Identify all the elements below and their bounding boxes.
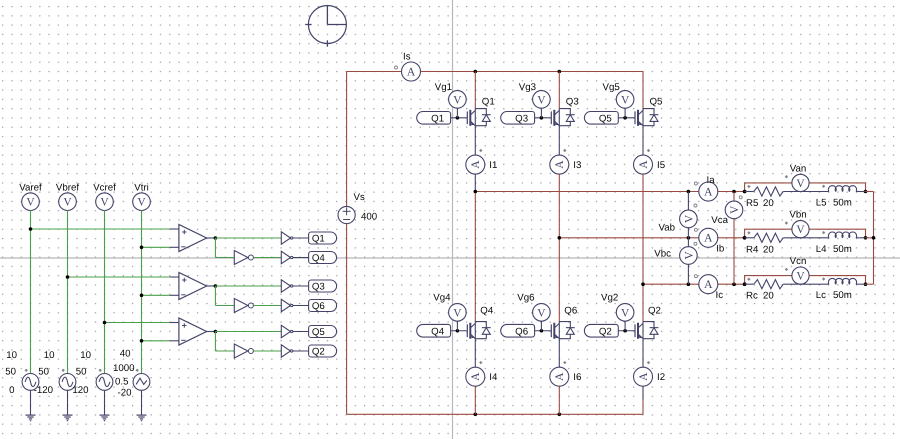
svg-text:1000: 1000 — [113, 363, 135, 374]
wire — [783, 191, 829, 193]
voltmeter Vg6 — [533, 304, 551, 331]
wire — [474, 339, 476, 368]
wire — [104, 390, 106, 414]
svg-text:A: A — [704, 186, 713, 198]
wire — [141, 210, 143, 373]
ammeter Ic — [699, 275, 718, 294]
svg-text:A: A — [638, 160, 650, 169]
wire — [558, 126, 560, 155]
svg-text:Vg6: Vg6 — [517, 293, 534, 304]
voltmeter Vcref — [96, 193, 114, 211]
label Vg5 — [603, 82, 620, 93]
svg-text:Q6: Q6 — [564, 306, 577, 317]
label Vg4 — [433, 293, 451, 304]
marker L5 — [822, 185, 825, 188]
label Q2 — [648, 306, 661, 317]
svg-text:10: 10 — [44, 350, 55, 361]
wire — [293, 305, 309, 307]
buffer gate Q5 — [281, 325, 293, 337]
svg-text:A: A — [470, 372, 482, 381]
svg-text:-120: -120 — [34, 385, 54, 396]
svg-text:V: V — [63, 197, 72, 209]
svg-text:A: A — [704, 233, 713, 245]
marker Vcn — [785, 268, 788, 271]
label R5 — [746, 198, 774, 209]
label Q3 — [566, 97, 579, 108]
marker Vca — [739, 196, 742, 199]
clock icon — [305, 6, 346, 47]
svg-text:Vbn: Vbn — [789, 210, 806, 221]
voltmeter Vg5 — [616, 91, 634, 118]
svg-text:A: A — [638, 372, 650, 381]
label I4 — [489, 372, 498, 383]
link tag Q2 — [309, 345, 337, 358]
value labels Vbref — [34, 350, 55, 396]
wire — [642, 284, 644, 321]
svg-text:50m: 50m — [833, 290, 852, 301]
label Ib — [716, 243, 724, 254]
label Vca — [711, 215, 728, 226]
label Rc — [746, 291, 774, 302]
svg-text:V: V — [621, 307, 630, 319]
svg-text:Van: Van — [790, 163, 807, 174]
svg-text:Vg1: Vg1 — [435, 82, 452, 93]
wire — [474, 174, 476, 191]
marker I6 — [563, 361, 566, 364]
label Ic — [716, 290, 724, 301]
svg-text:-20: -20 — [117, 388, 132, 399]
wire — [207, 284, 218, 288]
svg-text:L5: L5 — [816, 198, 827, 209]
svg-text:I6: I6 — [573, 372, 581, 383]
node gate — [456, 116, 460, 120]
svg-text:120: 120 — [72, 385, 89, 396]
axis vertical line — [452, 0, 454, 439]
voltmeter Vtri — [133, 193, 151, 211]
svg-text:I3: I3 — [573, 160, 581, 171]
marker Ic — [694, 275, 697, 278]
svg-text:20: 20 — [763, 198, 774, 209]
svg-text:V: V — [537, 307, 546, 319]
svg-text:V: V — [453, 307, 462, 319]
voltmeter Vbc — [680, 247, 698, 265]
svg-text:A: A — [554, 372, 566, 381]
svg-text:R4: R4 — [746, 244, 759, 255]
wire — [215, 332, 234, 352]
svg-text:Q5: Q5 — [650, 97, 663, 108]
label Vbn — [789, 210, 806, 221]
svg-text:A: A — [470, 160, 482, 169]
wire node Varef to comparator U1 + — [29, 227, 179, 231]
label I1 — [489, 160, 497, 171]
svg-text:20: 20 — [763, 291, 774, 302]
svg-text:Ib: Ib — [716, 243, 724, 254]
voltmeter Vab — [680, 210, 698, 228]
wire node Vtri to comparator U3 - — [140, 339, 179, 343]
ground — [100, 415, 110, 421]
resistor R4 — [754, 233, 783, 242]
inverter NOT gate for Q2 — [234, 344, 253, 358]
svg-text:I2: I2 — [657, 372, 665, 383]
op-amp comparator U3 — [179, 318, 207, 345]
wire Vab stub — [687, 192, 689, 238]
gate link tag Q5 — [584, 112, 618, 125]
svg-text:50: 50 — [38, 367, 49, 378]
svg-text:Ic: Ic — [716, 290, 724, 301]
node gate — [540, 116, 544, 120]
svg-text:Varef: Varef — [19, 183, 42, 194]
marker I3 — [563, 149, 566, 152]
wire — [745, 237, 754, 239]
marker Vbc — [694, 242, 697, 245]
ammeter Ib — [699, 228, 718, 247]
svg-text:V: V — [796, 178, 805, 190]
buffer gate Q2 — [281, 345, 293, 357]
marker R5 — [747, 185, 750, 188]
wire — [558, 174, 560, 238]
svg-text:Q2: Q2 — [312, 347, 325, 358]
source Vcref (sine) — [96, 369, 113, 391]
node — [743, 190, 868, 194]
wire — [783, 283, 829, 285]
wire — [67, 390, 69, 414]
wire — [856, 191, 865, 193]
svg-text:Vbc: Vbc — [654, 249, 671, 260]
buffer gate Q3 — [281, 280, 293, 292]
ground — [63, 415, 73, 421]
ammeter I2 — [634, 367, 653, 386]
wire phase b rail — [558, 236, 747, 240]
marker Vbn — [785, 221, 788, 224]
marker I4 — [479, 361, 482, 364]
wire — [642, 174, 644, 284]
label L4 — [816, 244, 852, 255]
wire neutral stub — [866, 237, 874, 239]
gate link tag Q6 — [501, 324, 535, 337]
label Ia — [707, 175, 716, 186]
svg-text:Vs: Vs — [354, 192, 365, 203]
voltmeter Vg1 — [449, 91, 467, 118]
svg-text:20: 20 — [763, 244, 774, 255]
value 400 — [361, 212, 378, 223]
label I5 — [657, 160, 665, 171]
value labels Vtri — [113, 349, 135, 399]
marker Ia — [694, 182, 697, 185]
wire — [558, 339, 560, 368]
svg-text:V: V — [453, 94, 462, 106]
svg-text:V: V — [537, 94, 546, 106]
ammeter Is — [402, 62, 421, 81]
wire branch top Vbn — [745, 229, 792, 238]
wire — [215, 237, 281, 239]
wire top rail left — [347, 71, 402, 73]
wire — [207, 330, 218, 334]
wire — [558, 386, 560, 414]
svg-text:Ia: Ia — [707, 175, 716, 186]
label Vbref — [56, 183, 79, 194]
svg-text:V: V — [796, 224, 805, 236]
svg-text:V: V — [100, 197, 109, 209]
wire Vbc stub — [687, 238, 689, 284]
transistor IGBT Q5 — [618, 109, 658, 126]
ammeter I3 — [550, 155, 569, 174]
ammeter Ia — [699, 182, 718, 201]
node gate — [456, 329, 460, 333]
label Vab — [658, 223, 675, 234]
label I2 — [657, 372, 665, 383]
marker Vab — [694, 204, 697, 207]
wire branch top right — [809, 276, 865, 285]
label Vcref — [93, 183, 116, 194]
wire — [474, 192, 476, 322]
voltmeter Vcn — [792, 267, 809, 284]
svg-text:Q4: Q4 — [312, 253, 326, 264]
wire node Vtri to comparator U1 - — [140, 246, 179, 250]
wire — [293, 285, 309, 287]
wire — [207, 236, 218, 240]
svg-text:Vg5: Vg5 — [603, 82, 620, 93]
wire — [253, 350, 281, 352]
transistor IGBT Q6 — [535, 322, 575, 339]
svg-text:Vcn: Vcn — [790, 256, 807, 267]
svg-text:Lc: Lc — [816, 290, 826, 301]
wire — [783, 237, 829, 239]
wire node Vtri to comparator U2 - — [140, 294, 179, 298]
label Q1 — [482, 97, 495, 108]
link tag Q6 — [309, 300, 337, 313]
svg-text:V: V — [621, 94, 630, 106]
inverter NOT gate for Q6 — [234, 299, 253, 313]
label Vg6 — [517, 293, 534, 304]
wire — [215, 286, 234, 306]
marker Ib — [694, 228, 697, 231]
voltmeter Vbref — [59, 193, 77, 211]
label Vg3 — [519, 82, 536, 93]
buffer gate Q4 — [281, 251, 293, 263]
svg-text:Q1: Q1 — [431, 113, 444, 124]
svg-text:Vg2: Vg2 — [601, 293, 618, 304]
wire — [474, 72, 476, 109]
op-amp comparator U1 — [179, 225, 207, 252]
svg-text:Vg3: Vg3 — [519, 82, 536, 93]
transistor IGBT Q1 — [451, 109, 491, 126]
source Vbref (sine) — [59, 369, 76, 391]
node gate — [623, 329, 627, 333]
svg-text:Q1: Q1 — [482, 97, 495, 108]
wire — [293, 331, 309, 333]
svg-text:10: 10 — [80, 350, 91, 361]
svg-text:A: A — [704, 279, 713, 291]
wire branch top right — [809, 229, 865, 238]
svg-text:Vg4: Vg4 — [433, 293, 451, 304]
svg-text:Q2: Q2 — [599, 326, 612, 337]
wire — [293, 350, 309, 352]
wire — [141, 390, 143, 414]
resistor R5 — [754, 187, 783, 196]
wire neutral stub — [866, 283, 874, 285]
ground — [26, 415, 36, 421]
svg-text:Vbref: Vbref — [56, 183, 79, 194]
label Q4 — [480, 306, 494, 317]
svg-text:Q4: Q4 — [431, 326, 445, 337]
gate link tag Q3 — [501, 112, 535, 125]
wire — [215, 285, 281, 287]
marker Van — [785, 175, 788, 178]
wire — [642, 339, 644, 368]
wire — [293, 237, 309, 239]
svg-text:A: A — [407, 66, 416, 78]
wire — [215, 331, 281, 333]
wire phase a rail — [474, 190, 747, 194]
label Is — [403, 52, 411, 63]
wire branch top Vcn — [745, 276, 792, 285]
svg-text:50: 50 — [5, 367, 16, 378]
voltmeter Van — [792, 174, 809, 191]
svg-text:V: V — [796, 271, 805, 283]
op-amp comparator U2 — [179, 273, 207, 300]
wire branch top Van — [745, 183, 792, 192]
svg-text:I4: I4 — [489, 372, 498, 383]
svg-text:Q2: Q2 — [648, 306, 661, 317]
buffer gate Q6 — [281, 299, 293, 311]
label I6 — [573, 372, 581, 383]
svg-text:V: V — [729, 205, 741, 214]
value labels Varef — [5, 350, 17, 396]
link tag Q4 — [309, 252, 337, 265]
wire phase c rail — [641, 282, 746, 286]
svg-text:Q3: Q3 — [566, 97, 579, 108]
voltmeter Vca — [725, 201, 743, 219]
resistor Rc — [754, 280, 783, 289]
gate link tag Q4 — [417, 324, 451, 337]
svg-text:0: 0 — [9, 385, 15, 396]
svg-text:V: V — [26, 197, 35, 209]
svg-text:Q4: Q4 — [480, 306, 494, 317]
node — [743, 236, 868, 240]
label Vtri — [134, 183, 149, 194]
label Varef — [19, 183, 42, 194]
node gate — [623, 116, 627, 120]
wire Vca stub — [733, 192, 735, 285]
label L5 — [816, 198, 852, 209]
label I3 — [573, 160, 581, 171]
wire — [253, 305, 281, 307]
ammeter I6 — [550, 367, 569, 386]
label Vbc — [654, 249, 671, 260]
wire — [30, 210, 32, 373]
svg-text:0.5: 0.5 — [115, 377, 128, 388]
wire — [215, 238, 234, 258]
wire Vs to bottom rail — [346, 224, 348, 415]
inductor L5 — [828, 186, 856, 192]
gate link tag Q1 — [417, 112, 451, 125]
svg-text:I1: I1 — [489, 160, 497, 171]
marker L4 — [822, 231, 825, 234]
inductor L4 — [828, 232, 856, 238]
link tag Q5 — [309, 326, 337, 339]
svg-text:V: V — [683, 214, 695, 223]
wire branch top right — [809, 183, 865, 192]
gate link tag Q2 — [584, 324, 618, 337]
svg-text:Q6: Q6 — [515, 326, 528, 337]
wire — [642, 126, 644, 155]
wire — [67, 210, 69, 373]
transistor IGBT Q3 — [535, 109, 575, 126]
inductor Lc — [828, 278, 856, 284]
svg-text:Q5: Q5 — [312, 327, 325, 338]
voltmeter Varef — [22, 193, 40, 211]
wire neutral stub — [866, 191, 874, 193]
link tag Q3 — [309, 280, 337, 293]
svg-text:10: 10 — [6, 350, 17, 361]
dc source Vs — [338, 206, 355, 223]
svg-text:R5: R5 — [746, 198, 758, 209]
svg-text:Vtri: Vtri — [134, 183, 149, 194]
transistor IGBT Q4 — [451, 322, 491, 339]
label Vg1 — [435, 82, 452, 93]
ammeter I5 — [634, 155, 653, 174]
wire — [642, 386, 644, 414]
voltmeter Vg4 — [449, 304, 467, 331]
source Vtri (triangle) — [133, 369, 150, 391]
svg-text:Q6: Q6 — [312, 301, 325, 312]
marker Rc — [747, 278, 750, 281]
source Varef (sine) — [22, 369, 39, 391]
wire — [745, 191, 754, 193]
buffer gate Q1 — [281, 232, 293, 244]
svg-text:Vab: Vab — [658, 223, 675, 234]
voltmeter Vg2 — [616, 304, 634, 331]
svg-text:Q5: Q5 — [599, 113, 612, 124]
marker I2 — [647, 361, 650, 364]
axis horizontal line — [0, 257, 900, 259]
svg-text:Q1: Q1 — [312, 234, 325, 245]
svg-text:50m: 50m — [833, 198, 852, 209]
voltmeter Vg3 — [533, 91, 551, 118]
svg-text:Q3: Q3 — [312, 282, 325, 293]
node gate — [540, 329, 544, 333]
ammeter I4 — [466, 367, 485, 386]
svg-text:50m: 50m — [833, 244, 852, 255]
inverter NOT gate for Q4 — [234, 251, 253, 265]
wire node Vcref to comparator U3 + — [103, 321, 179, 325]
wire — [642, 72, 644, 109]
wire — [745, 283, 754, 285]
ground — [137, 415, 147, 421]
ammeter I1 — [466, 155, 485, 174]
voltmeter Vbn — [792, 221, 809, 238]
wire top rail — [421, 70, 644, 74]
marker Lc — [822, 277, 825, 280]
label R4 — [746, 244, 774, 255]
node — [743, 282, 868, 286]
wire — [856, 237, 865, 239]
label Vg2 — [601, 293, 618, 304]
svg-text:Rc: Rc — [746, 291, 758, 302]
wire — [253, 257, 281, 259]
transistor IGBT Q2 — [618, 322, 658, 339]
wire Vs to top rail — [346, 72, 348, 207]
svg-text:I5: I5 — [657, 160, 665, 171]
label Vs — [354, 192, 365, 203]
wire — [104, 210, 106, 373]
svg-text:Vca: Vca — [711, 215, 728, 226]
wire node Vbref to comparator U2 + — [66, 275, 179, 279]
svg-text:50: 50 — [76, 367, 87, 378]
wire — [293, 257, 309, 259]
marker Is — [395, 66, 398, 69]
wire — [558, 238, 560, 322]
